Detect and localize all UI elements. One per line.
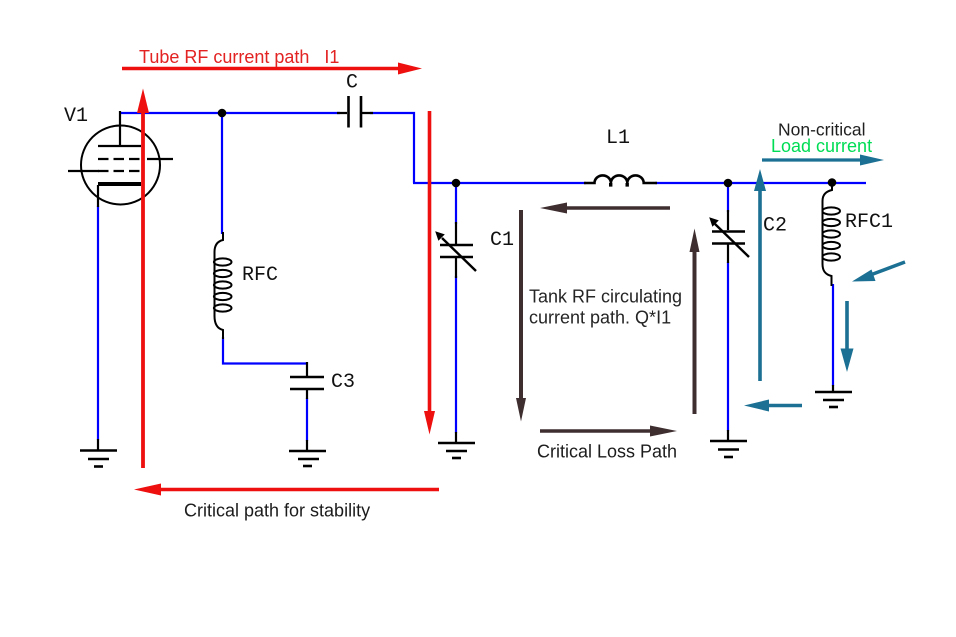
dark loop: bottom arrow right: [540, 426, 677, 437]
node D (RFC1 junction): [828, 178, 837, 187]
inductor RFC1: [822, 184, 840, 286]
node C (C2 junction): [724, 179, 733, 188]
tube V1 grid 1 (dashed) + right lead: [98, 158, 141, 160]
wire: C3 bottom to ground: [306, 398, 308, 441]
svg-text:V1: V1: [64, 105, 88, 128]
inductor L1: [584, 175, 657, 186]
dark loop: right vertical arrow up: [690, 229, 700, 415]
ground (C1): [438, 432, 475, 458]
tube V1 envelope: [81, 126, 160, 205]
svg-text:RFC1: RFC1: [845, 211, 893, 234]
wire: C1 bottom to ground: [455, 276, 457, 433]
wire: L1 to right end: [655, 182, 866, 184]
red arrow: down at C1 (anode return): [424, 111, 435, 435]
ground (C3): [289, 440, 326, 466]
wire: C to right elbow: [370, 113, 414, 183]
capacitor C: [337, 96, 373, 128]
svg-text:C: C: [346, 72, 358, 95]
teal arrow: load current (horizontal right): [762, 155, 884, 166]
wire: C2 bottom to ground: [727, 262, 729, 431]
wire: top plate wire V1 to C: [120, 112, 340, 114]
wire: C1 top lead: [455, 183, 457, 224]
svg-text:Load current: Load current: [771, 136, 872, 156]
svg-text:RFC: RFC: [242, 264, 278, 287]
teal arrow: down beside RFC1: [841, 301, 854, 372]
node B (C1 junction): [452, 179, 461, 188]
svg-text:C3: C3: [331, 371, 355, 394]
teal arrow: left below grounds: [744, 400, 802, 412]
ground (C2): [710, 430, 747, 457]
dark loop: left vertical arrow down: [516, 210, 526, 422]
tube V1 plate + lead: [98, 111, 141, 146]
svg-text:current path. Q*I1: current path. Q*I1: [529, 308, 671, 328]
red arrow: bottom horizontal (critical path): [134, 484, 439, 496]
teal arrow: up beside C2: [754, 169, 766, 381]
svg-text:Critical Loss Path: Critical Loss Path: [537, 442, 677, 462]
teal arrow: diagonal into RFC1: [852, 262, 905, 282]
wire: RFC bottom to C3: [223, 337, 306, 364]
tube V1 cathode + lead: [98, 182, 141, 186]
node A (grid junction top wire): [218, 109, 227, 118]
ground (V1 cathode): [80, 439, 117, 467]
svg-text:Critical path for stability: Critical path for stability: [184, 501, 370, 521]
wire: main horizontal to L1: [413, 182, 586, 184]
variable capacitor C1: [435, 222, 476, 278]
red arrow: Tube RF current path (horizontal): [122, 63, 422, 75]
capacitor C3: [290, 362, 324, 399]
svg-text:Tank RF circulating: Tank RF circulating: [529, 287, 682, 307]
svg-text:C1: C1: [490, 229, 514, 252]
wire: RFC1 bottom to ground: [832, 284, 834, 386]
dark loop: top arrow left: [540, 203, 670, 214]
tube V1 grid 2 (dashed) + left lead: [98, 170, 141, 172]
wire: V1 cathode to ground: [97, 206, 99, 440]
svg-text:L1: L1: [606, 127, 630, 150]
variable capacitor C2: [709, 210, 749, 263]
wire: C2 top lead: [727, 183, 729, 212]
svg-text:C2: C2: [763, 215, 787, 238]
ground (RFC1): [815, 385, 852, 407]
wire: RFC branch drop from node: [221, 112, 223, 234]
red arrow: up through tube V1: [137, 89, 149, 469]
svg-text:Tube RF current path I1: Tube RF current path I1: [139, 47, 339, 67]
inductor RFC: [214, 232, 232, 339]
